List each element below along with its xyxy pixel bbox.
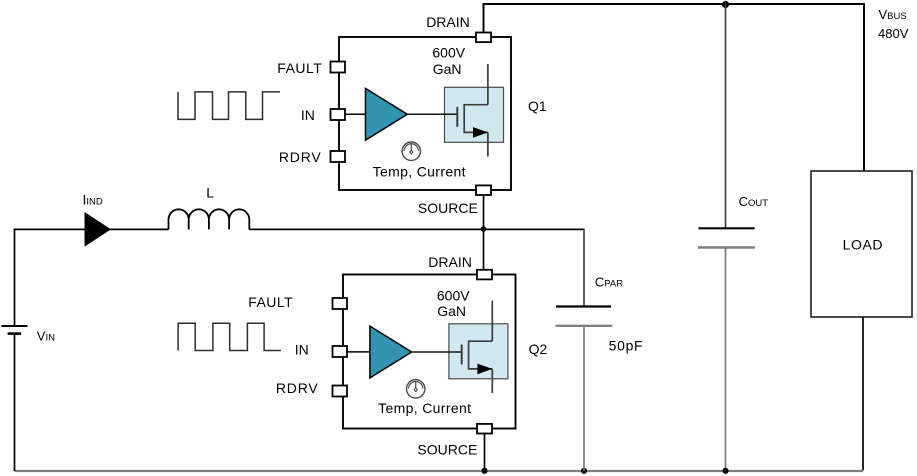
node: Q2 source junction <box>481 468 487 474</box>
svg-text:Q2: Q2 <box>529 341 548 357</box>
wire: bottom gnd bus <box>15 470 864 472</box>
pin IN Q2 <box>333 346 348 357</box>
transistor Q1 source arrow <box>473 127 488 138</box>
op-amp driver A2 <box>370 326 412 378</box>
svg-text:Temp, Current: Temp, Current <box>378 400 471 416</box>
wire: CPAR upper lead <box>583 229 585 307</box>
svg-text:Q1: Q1 <box>528 98 547 114</box>
transistor Q2 symbol <box>462 301 493 394</box>
svg-text:480V: 480V <box>878 26 909 41</box>
node: top bus junction to COUT <box>722 1 729 8</box>
svg-text:50pF: 50pF <box>609 337 644 353</box>
inductor L <box>169 209 250 229</box>
battery VIN <box>1 326 27 334</box>
svg-text:FAULT: FAULT <box>248 294 293 310</box>
wire: COUT lower lead <box>725 248 727 471</box>
GaN FET body rect Q2 <box>449 324 508 379</box>
svg-text:SOURCE: SOURCE <box>418 200 478 216</box>
svg-text:600V: 600V <box>432 45 465 61</box>
svg-text:IN: IN <box>295 341 309 357</box>
svg-text:FAULT: FAULT <box>277 60 322 76</box>
op-amp driver A1 <box>366 88 408 140</box>
svg-text:600V: 600V <box>437 288 470 304</box>
wire: switch node to Q2 drain <box>483 229 485 269</box>
pin FAULT Q2 <box>333 298 348 309</box>
svg-text:DRAIN: DRAIN <box>428 254 472 270</box>
svg-text:SOURCE: SOURCE <box>417 441 477 457</box>
pin DRAIN Q2 <box>477 270 492 280</box>
wire: VIN lower lead <box>14 334 16 471</box>
wire: VIN upper lead <box>14 229 16 326</box>
wire: top bus from Q1 drain to VBUS corner <box>484 4 865 171</box>
pin DRAIN Q1 <box>476 33 491 43</box>
wire: driver output to gate Q2 <box>412 351 462 353</box>
arrow IIND current direction <box>85 212 112 247</box>
transistor Q2 source arrow <box>477 364 492 375</box>
svg-text:L: L <box>206 184 214 200</box>
wire: IN pin to driver input Q2 <box>347 351 370 353</box>
pin RDRV Q2 <box>333 386 348 397</box>
pwm waveform Q1 <box>178 92 280 120</box>
svg-text:DRAIN: DRAIN <box>426 14 470 30</box>
svg-text:RDRV: RDRV <box>276 380 319 396</box>
pin FAULT Q1 <box>331 62 346 73</box>
svg-text:LOAD: LOAD <box>843 236 884 252</box>
gauge sensor icon Q2 <box>407 380 425 398</box>
pin SOURCE Q2 <box>477 424 492 434</box>
GaN FET body rect Q1 <box>445 87 504 142</box>
wire: IN pin to driver input Q1 <box>345 113 366 115</box>
node: switch node junction <box>481 226 487 232</box>
wire: inductor to CPAR corner <box>249 228 584 230</box>
pin RDRV Q1 <box>331 151 346 162</box>
svg-text:Temp, Current: Temp, Current <box>373 163 466 179</box>
wire: driver output to gate Q1 <box>407 113 457 115</box>
capacitor COUT <box>698 228 755 247</box>
wire: main switch-node rail <box>14 228 169 230</box>
wire: CPAR lower lead <box>583 326 585 471</box>
gate driver module box Q1 <box>339 37 511 190</box>
svg-text:IN: IN <box>301 107 315 123</box>
node: CPAR junction <box>581 468 587 474</box>
node: COUT junction <box>722 468 728 474</box>
svg-text:GaN: GaN <box>433 61 462 77</box>
svg-text:GaN: GaN <box>437 303 466 319</box>
gate driver module box Q2 <box>343 275 516 429</box>
pwm waveform Q2 <box>178 323 281 350</box>
svg-text:RDRV: RDRV <box>279 149 322 165</box>
wire: Q2 source pin to gnd bus <box>484 434 486 471</box>
wire: LOAD bottom lead to ground bus <box>862 317 864 471</box>
pin SOURCE Q1 <box>476 185 491 195</box>
LOAD box U3 <box>811 171 912 317</box>
capacitor CPAR <box>555 307 612 326</box>
wire: Q1 source to switch node <box>483 195 485 229</box>
pin IN Q1 <box>331 109 346 120</box>
transistor Q1 symbol <box>457 64 488 157</box>
gauge sensor icon Q1 <box>402 142 420 160</box>
wire: COUT upper lead <box>725 4 727 228</box>
